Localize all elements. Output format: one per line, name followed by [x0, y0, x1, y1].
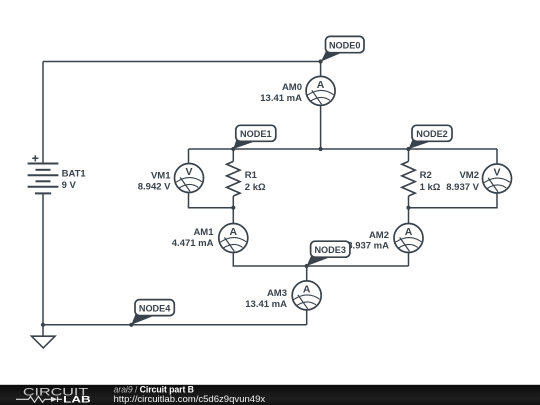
wire VM2 top lead [496, 149, 498, 164]
wire VM2 bottom lead [409, 193, 498, 208]
wire middle rail [189, 148, 498, 150]
svg-text:http://circuitlab.com/c5d6z9qv: http://circuitlab.com/c5d6z9qvun49x [114, 394, 266, 405]
node NODE1 [233, 125, 275, 149]
svg-text:13.41 mA: 13.41 mA [260, 93, 302, 104]
svg-text:A: A [405, 226, 413, 238]
svg-text:8.937 V: 8.937 V [446, 182, 479, 193]
wire top rail [43, 61, 321, 63]
svg-text:VM2: VM2 [459, 170, 479, 181]
wire R2 top lead [408, 149, 410, 161]
node NODE2 [409, 125, 453, 149]
wire bottom rail [43, 324, 307, 326]
node NODE0 [321, 36, 364, 61]
wire AM0 top lead [320, 62, 322, 77]
footer bar [0, 385, 540, 405]
svg-text:2 kΩ: 2 kΩ [245, 182, 266, 193]
svg-text:V: V [493, 166, 500, 178]
junction dot R2 bottom [406, 206, 410, 210]
resistor R1 [227, 161, 240, 196]
svg-text:R2: R2 [420, 170, 432, 181]
svg-text:8.937 mA: 8.937 mA [347, 241, 389, 252]
ammeter AM2 [394, 224, 423, 253]
ammeter AM1 [219, 224, 248, 253]
node NODE4 [131, 300, 174, 325]
svg-text:8.942 V: 8.942 V [138, 182, 171, 193]
svg-text:9 V: 9 V [62, 180, 77, 191]
wire ground stub [42, 325, 44, 336]
svg-text:BAT1: BAT1 [62, 169, 87, 180]
wire R1 top lead [232, 149, 234, 161]
battery BAT1 [28, 155, 59, 193]
svg-text:AM1: AM1 [193, 227, 214, 238]
logo diode symbol [51, 397, 57, 402]
svg-text:NODE0: NODE0 [329, 40, 361, 50]
svg-text:4.471 mA: 4.471 mA [172, 238, 214, 249]
svg-text:A: A [317, 79, 325, 91]
svg-text:1 kΩ: 1 kΩ [420, 182, 441, 193]
svg-text:R1: R1 [245, 170, 258, 181]
wire battery bottom lead [42, 193, 44, 324]
ammeter AM0 [306, 76, 335, 105]
svg-text:AM3: AM3 [267, 288, 287, 299]
svg-text:LAB: LAB [63, 394, 91, 404]
svg-text:AM0: AM0 [282, 82, 302, 93]
junction dot R1 bottom [231, 206, 235, 210]
svg-text:A: A [303, 283, 311, 295]
svg-text:VM1: VM1 [151, 170, 171, 181]
logo resistor squiggle [16, 396, 51, 402]
voltmeter VM2 [483, 164, 512, 193]
wire AM3 bottom lead [306, 310, 308, 325]
wire AM2 bottom lead [408, 253, 410, 267]
wire AM3 top lead [306, 266, 308, 281]
junction dot AM0 bottom [319, 147, 323, 151]
svg-text:13.41 mA: 13.41 mA [245, 299, 287, 310]
junction dot NODE2 [406, 147, 410, 151]
junction dot top [319, 59, 323, 63]
junction dot NODE1 [231, 147, 235, 151]
wire AM1 top lead [232, 208, 234, 224]
wire VM1 bottom lead [189, 193, 234, 208]
junction dot ground corner [41, 323, 45, 327]
wire battery top lead [42, 62, 44, 164]
junction dot NODE3 [305, 264, 309, 268]
wire R2 bottom lead [408, 196, 410, 208]
svg-text:AM2: AM2 [369, 230, 389, 241]
resistor R2 [402, 161, 415, 196]
node NODE3 [307, 241, 350, 266]
wire VM1 top lead [188, 149, 190, 164]
wire R1 bottom lead [232, 196, 234, 208]
svg-text:A: A [230, 226, 238, 238]
wire AM0 bottom lead [320, 105, 322, 149]
junction dot NODE4 [129, 323, 133, 327]
svg-text:V: V [185, 166, 192, 178]
svg-text:NODE3: NODE3 [314, 245, 346, 255]
ammeter AM3 [292, 281, 321, 310]
wire AM2 top lead [408, 208, 410, 224]
svg-text:NODE2: NODE2 [416, 129, 448, 139]
ground [32, 336, 56, 348]
svg-text:NODE1: NODE1 [240, 129, 272, 139]
wire AM1 to AM2 rail [233, 253, 408, 267]
voltmeter VM1 [175, 164, 204, 193]
svg-text:NODE4: NODE4 [139, 303, 171, 313]
